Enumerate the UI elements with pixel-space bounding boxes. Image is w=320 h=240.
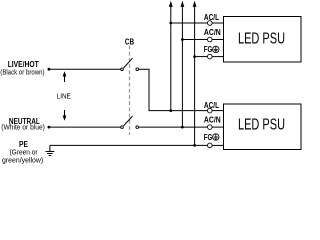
svg-text:(Green or: (Green or	[10, 150, 39, 157]
svg-text:AC/L: AC/L	[204, 13, 219, 22]
svg-text:(Black or brown): (Black or brown)	[0, 70, 44, 77]
svg-text:FG: FG	[204, 45, 213, 54]
svg-text:LIVE/HOT: LIVE/HOT	[8, 60, 39, 69]
svg-text:LED PSU: LED PSU	[238, 116, 285, 133]
svg-text:AC/L: AC/L	[204, 101, 219, 110]
svg-text:AC/N: AC/N	[204, 116, 221, 125]
svg-text:CB: CB	[125, 38, 134, 47]
svg-text:AC/N: AC/N	[204, 28, 221, 37]
svg-text:LINE: LINE	[57, 92, 71, 101]
svg-text:green/yellow): green/yellow)	[2, 157, 43, 164]
svg-text:PE: PE	[19, 140, 28, 149]
svg-text:(White or blue): (White or blue)	[1, 125, 45, 132]
svg-text:LED PSU: LED PSU	[238, 30, 285, 47]
svg-text:FG: FG	[204, 133, 213, 142]
